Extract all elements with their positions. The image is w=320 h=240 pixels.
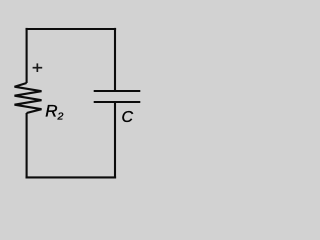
resistor R2 [15,83,42,113]
polarity + [33,63,43,72]
svg-text:C: C [122,109,134,126]
wire right lower [114,102,116,178]
wire left lower [26,113,28,178]
wire top [26,28,117,30]
wire right upper [114,28,116,91]
capacitor C [94,91,141,102]
wire left upper [26,28,28,83]
wire bottom [26,176,117,178]
